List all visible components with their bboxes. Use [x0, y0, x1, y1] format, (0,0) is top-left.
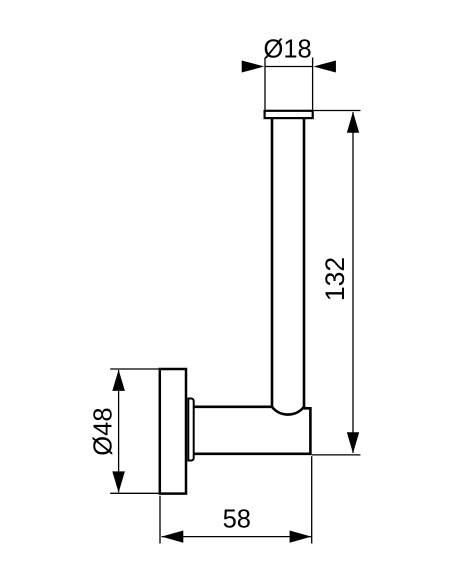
- svg-text:132: 132: [320, 257, 350, 301]
- svg-text:58: 58: [223, 506, 251, 534]
- svg-text:Ø18: Ø18: [263, 35, 311, 63]
- svg-text:Ø48: Ø48: [89, 407, 117, 455]
